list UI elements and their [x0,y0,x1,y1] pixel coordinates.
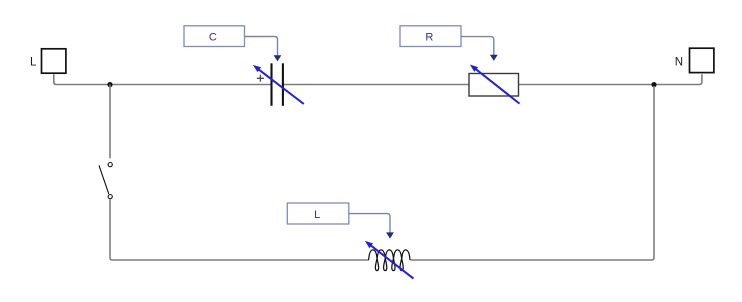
capacitor C plate left [270,63,272,106]
switch S1 bottom contact [108,195,112,199]
wire top rail capacitor to resistor [283,84,469,86]
svg-text:C: C [209,31,217,43]
resistor R body [469,74,519,97]
wire top rail resistor to N terminal lead [519,74,702,84]
terminal L box [42,49,66,73]
inductor L coil [369,250,410,271]
capacitor C plate right [282,63,284,106]
label arrow L to inductor [349,214,390,233]
svg-text:R: R [425,31,433,43]
switch S1 top contact [108,163,112,167]
switch S1 blade (open) [99,165,109,194]
capacitor variable arrow (blue diagonal) [257,68,304,104]
label box R [400,26,461,47]
wire switch to bottom rail (left segment to inductor) [110,199,369,260]
wire junction down to switch [109,85,111,159]
node junction left (top rail to switch branch) [107,82,112,87]
label arrow C to capacitor [245,37,278,56]
capacitor polarity plus sign [257,75,264,82]
label box C [184,26,245,47]
inductor variable arrow (blue diagonal) [369,244,414,279]
resistor variable arrow (blue diagonal) [474,67,520,103]
svg-text:N: N [675,56,683,68]
svg-text:L: L [30,57,37,69]
node junction right (top rail to right branch) [651,82,656,87]
wire bottom rail inductor to right branch up to junction [410,86,654,260]
svg-text:L: L [314,209,320,221]
terminal N box [690,48,714,72]
wire L terminal lead to top rail (left segment to capacitor) [54,74,272,84]
label box L [287,203,349,224]
label arrow R to resistor [461,37,494,55]
